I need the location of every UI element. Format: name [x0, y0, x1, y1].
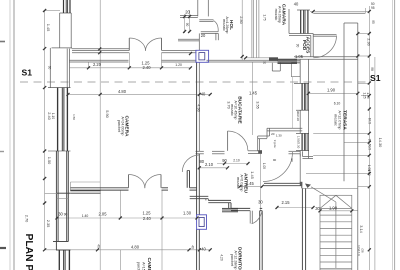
- svg-text:4.90: 4.90: [197, 104, 202, 112]
- terasa dim lines: [313, 132, 369, 134]
- dark sill dorm hall bottom (window?): [222, 208, 238, 211]
- svg-text:mozaic: mozaic: [334, 114, 338, 126]
- top-left pier: [59, 13, 61, 48]
- svg-text:80: 80: [200, 159, 205, 164]
- window camara bottom horizontal: [278, 59, 298, 63]
- stairs dim 2.15: [277, 207, 313, 209]
- top right dim line: [310, 10, 369, 12]
- dimension tick marks: [43, 9, 371, 251]
- svg-text:90: 90: [290, 158, 294, 162]
- dorm top wall: [264, 182, 302, 184]
- window camara right (x=300-308,y=10-33): [297, 10, 310, 34]
- svg-text:40: 40: [294, 2, 299, 7]
- svg-text:mozaic: mozaic: [230, 104, 234, 116]
- svg-text:2.10: 2.10: [205, 162, 214, 167]
- svg-text:6.10: 6.10: [334, 102, 341, 106]
- camara walls: [288, 9, 290, 34]
- vestibule walls: [196, 150, 204, 152]
- svg-text:mozaic: mozaic: [274, 9, 278, 21]
- svg-text:2.35: 2.35: [46, 220, 51, 228]
- svg-text:40: 40: [97, 244, 101, 248]
- svg-text:2.30: 2.30: [367, 38, 372, 46]
- svg-text:20: 20: [263, 61, 267, 65]
- svg-text:95: 95: [371, 6, 375, 10]
- svg-text:98: 98: [370, 67, 374, 71]
- svg-text:1.30: 1.30: [276, 133, 282, 137]
- right dim col: [368, 6, 370, 270]
- svg-text:1.50: 1.50: [72, 114, 76, 120]
- window W5 terasa wall lower: [296, 133, 309, 150]
- edge marks: [0, 41, 5, 43]
- svg-text:S1: S1: [370, 73, 381, 83]
- window W2 camera left big: [48, 88, 71, 151]
- svg-text:1.40: 1.40: [82, 214, 89, 218]
- svg-text:90: 90: [273, 158, 277, 162]
- svg-text:1.45: 1.45: [46, 24, 51, 32]
- svg-text:95: 95: [371, 20, 375, 24]
- hall wall right: [301, 188, 303, 270]
- svg-text:1.02: 1.02: [367, 169, 371, 175]
- bucatarie door: [227, 131, 229, 151]
- svg-text:mozaic: mozaic: [236, 177, 240, 189]
- svg-text:parchet: parchet: [117, 120, 121, 132]
- svg-text:2.70: 2.70: [24, 215, 29, 223]
- stair direction arrowhead: [305, 184, 311, 189]
- hol door jamb wall below: [201, 31, 219, 33]
- svg-text:14.30: 14.30: [378, 138, 383, 149]
- svg-text:90: 90: [64, 213, 68, 217]
- svg-text:4.20: 4.20: [220, 254, 224, 260]
- svg-text:1.20: 1.20: [175, 63, 182, 67]
- dorm right wall: [259, 211, 261, 270]
- svg-text:3.14: 3.14: [359, 225, 364, 233]
- section line S1 dashed: [20, 81, 367, 83]
- left lower wall: [55, 151, 57, 250]
- bucatarie bottom wall: [267, 127, 302, 129]
- svg-text:1.50: 1.50: [47, 157, 52, 165]
- svg-text:1.90: 1.90: [327, 88, 336, 93]
- svg-text:2.40: 2.40: [143, 216, 152, 221]
- svg-text:90: 90: [296, 44, 300, 48]
- axis line x=244: [241, 0, 243, 60]
- antreu dims: [198, 167, 228, 169]
- svg-text:1.90: 1.90: [329, 206, 338, 211]
- camera top wall y=60.3/62: [69, 59, 128, 61]
- svg-text:40: 40: [201, 247, 206, 252]
- below acces door: [294, 56, 358, 58]
- double door bottom: [128, 175, 130, 188]
- svg-text:2.40: 2.40: [143, 65, 152, 70]
- svg-text:30: 30: [258, 200, 263, 205]
- svg-text:1.05: 1.05: [262, 163, 266, 169]
- camera right wall: [198, 62, 200, 151]
- svg-text:S1: S1: [22, 68, 33, 78]
- ext lines door top: [128, 53, 130, 68]
- svg-text:17x17.6: 17x17.6: [357, 245, 361, 256]
- svg-text:4.80: 4.80: [131, 245, 140, 250]
- svg-text:2.05: 2.05: [99, 212, 108, 217]
- svg-text:1.45: 1.45: [249, 91, 258, 96]
- sheet edge left: [9, 0, 11, 270]
- svg-text:30: 30: [47, 66, 51, 70]
- svg-text:parchet: parchet: [136, 262, 140, 270]
- svg-text:20: 20: [271, 132, 275, 136]
- hol duct top: [197, 0, 199, 16]
- svg-text:2.10: 2.10: [233, 159, 240, 163]
- vestibule door to camera: [182, 155, 199, 172]
- chimney walls column: [196, 62, 198, 214]
- top dim line 2.20 row: [70, 67, 191, 69]
- room labels (rotated 90 CW, lines stack leftward): [117, 4, 347, 270]
- svg-text:95: 95: [367, 139, 371, 143]
- svg-text:67.5: 67.5: [367, 118, 371, 124]
- double door top: [128, 38, 130, 50]
- svg-text:1.45: 1.45: [250, 171, 255, 179]
- svg-text:20: 20: [201, 33, 206, 38]
- window W4 terasa wall upper: [294, 83, 309, 110]
- axis x=252.6: [251, 0, 253, 58]
- left dim col: [44, 11, 46, 251]
- axis line A (x=100): [99, 0, 101, 270]
- 4.80 dim line upper: [68, 93, 211, 95]
- hol dims: [184, 14, 186, 33]
- svg-text:2.20: 2.20: [93, 62, 102, 67]
- room label CAMERA: [124, 115, 130, 137]
- terasa top: [313, 12, 365, 14]
- hol door: [199, 19, 213, 21]
- step walls to dorm: [190, 195, 209, 197]
- svg-text:5.90: 5.90: [105, 110, 110, 118]
- svg-text:30: 30: [315, 206, 320, 211]
- svg-text:1.25: 1.25: [143, 211, 152, 216]
- svg-text:1.75: 1.75: [263, 14, 267, 20]
- svg-text:1.30: 1.30: [183, 211, 192, 216]
- svg-text:50.5: 50.5: [367, 144, 371, 150]
- dorm small door: [249, 211, 251, 224]
- notch dorm door top: [289, 150, 301, 152]
- svg-text:1.75: 1.75: [366, 92, 370, 98]
- dorm-terasa door: [263, 152, 293, 182]
- svg-text:parchet: parchet: [230, 254, 234, 266]
- svg-text:90/2.30: 90/2.30: [296, 111, 300, 121]
- svg-text:1.50/2.30: 1.50/2.30: [297, 136, 301, 149]
- window W3 bottom-left: [59, 250, 69, 270]
- svg-text:1.10: 1.10: [51, 113, 55, 119]
- bottom double door walls: [71, 187, 129, 189]
- camara notch: [271, 63, 273, 71]
- window W1 top-left: [60, 0, 71, 13]
- terasa left wall faces: [299, 59, 301, 83]
- svg-text:4.80: 4.80: [118, 89, 127, 94]
- svg-text:mozaic: mozaic: [222, 19, 226, 31]
- bottom 4.80 dim: [45, 249, 210, 251]
- svg-text:90: 90: [222, 158, 227, 163]
- svg-text:3.55: 3.55: [256, 101, 261, 109]
- wall stub left middle: [71, 181, 101, 183]
- dimension value texts: [58, 2, 375, 252]
- svg-text:40: 40: [201, 92, 206, 97]
- wall band y=50.4/52.7: [72, 49, 129, 51]
- svg-text:2.15: 2.15: [282, 200, 291, 205]
- svg-text:1.05: 1.05: [295, 54, 304, 59]
- top dim line y=10.5 left: [45, 10, 60, 12]
- svg-text:PLAN PARTER: PLAN PARTER: [23, 234, 34, 270]
- svg-text:2.80: 2.80: [239, 16, 244, 24]
- svg-text:40: 40: [191, 245, 195, 249]
- svg-text:CAMERA: CAMERA: [146, 257, 152, 270]
- svg-text:/28: /28: [361, 248, 365, 253]
- dorm right wall axis thin: [259, 154, 261, 211]
- acces pod door: [313, 34, 336, 36]
- bottom dim line 2.05/1.25/1.30: [57, 217, 197, 219]
- svg-text:A=15.2: A=15.2: [142, 262, 146, 270]
- svg-text:frigider: frigider: [273, 140, 277, 149]
- sheet edge right: [392, 0, 394, 270]
- svg-text:20: 20: [185, 10, 190, 15]
- svg-text:POD: POD: [301, 40, 307, 51]
- svg-text:30: 30: [58, 212, 63, 217]
- svg-text:90: 90: [185, 23, 189, 27]
